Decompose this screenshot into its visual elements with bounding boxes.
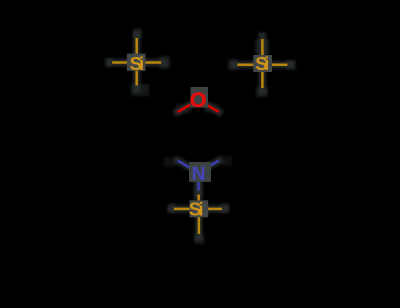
bottom Si label box: [190, 200, 209, 217]
left Si down CH2 bond: [135, 63, 138, 86]
artifact right of right Si: [286, 60, 296, 70]
artifact near left red bond: [175, 104, 191, 114]
N label box: [189, 162, 211, 182]
left Si left methyl bond: [112, 61, 137, 64]
right Si left methyl bond: [237, 64, 262, 67]
artifact below bottom Si: [194, 234, 204, 244]
artifact above left Si: [133, 28, 142, 38]
artifact below right Si: [256, 87, 268, 97]
bond O-C6 red half: [178, 100, 199, 112]
bond Si-N gold half: [197, 195, 200, 209]
jpeg smear glow along bonds: [110, 35, 290, 237]
artifact right of bottom Si: [220, 203, 229, 213]
svg-text:Si: Si: [130, 53, 145, 74]
artifact left of left Si: [105, 58, 113, 67]
artifact right of left Si: [159, 56, 170, 69]
O label box: [191, 87, 209, 108]
glow left Si cross: [133, 35, 141, 56]
artifact left of right Si: [228, 59, 238, 70]
glow right Si cross: [259, 36, 267, 57]
bond N-C5 blue half: [178, 161, 199, 173]
glow bottom Si cross: [171, 205, 192, 213]
jpeg artifact patches: [105, 28, 296, 244]
left Si label box: [127, 54, 146, 71]
artifact below N: [194, 182, 203, 200]
left Si up methyl bond: [135, 38, 138, 63]
glow O bonds: [178, 102, 195, 112]
bottom Si right methyl bond: [199, 208, 222, 211]
bond N-Si blue half: [197, 173, 200, 191]
artifact near right red bond: [205, 104, 219, 113]
right Si right methyl bond: [262, 64, 287, 67]
svg-text:N: N: [192, 164, 206, 185]
bond O-C2 red half: [198, 100, 219, 112]
artifact below left Si: [131, 84, 149, 96]
glow N bonds: [178, 161, 195, 170]
bottom Si left methyl bond: [174, 208, 199, 211]
left Si right methyl bond: [137, 61, 161, 64]
artifact near left blue bond: [164, 157, 176, 167]
svg-text:Si: Si: [189, 199, 204, 220]
artifact near right blue bond: [221, 156, 232, 166]
right Si down CH2 bond: [261, 64, 264, 88]
right Si label box: [253, 55, 272, 72]
artifact above right Si: [255, 39, 269, 55]
svg-text:O: O: [190, 88, 207, 112]
bond N-C3 blue half: [198, 161, 219, 173]
bottom Si down methyl bond: [198, 209, 201, 234]
right Si up methyl bond: [261, 39, 264, 64]
svg-text:Si: Si: [255, 53, 269, 74]
artifact left of bottom Si: [169, 203, 176, 213]
